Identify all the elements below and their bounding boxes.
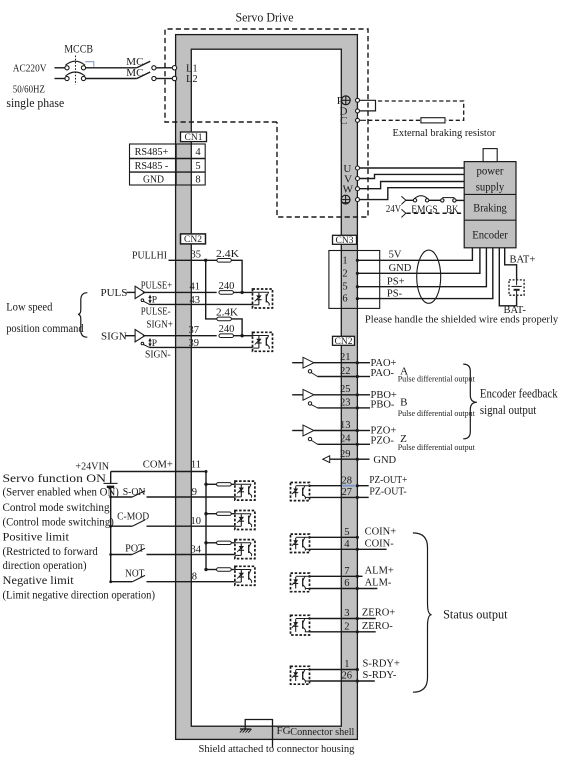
resistor input NOT bbox=[217, 568, 232, 571]
svg-text:26: 26 bbox=[342, 671, 353, 682]
svg-text:direction operation): direction operation) bbox=[3, 558, 87, 572]
svg-text:8: 8 bbox=[192, 572, 197, 583]
resistor R 240 (sign) bbox=[219, 334, 234, 338]
optocoupler output PZ-OUT bbox=[291, 483, 310, 501]
svg-text:9: 9 bbox=[192, 487, 197, 498]
battery BAT (encoder backup) bbox=[509, 280, 524, 295]
svg-text:Pulse differential output: Pulse differential output bbox=[398, 375, 476, 384]
svg-text:PULSE+: PULSE+ bbox=[141, 280, 172, 291]
pin 9 bbox=[192, 487, 197, 498]
label 50/60HZ bbox=[13, 84, 45, 96]
label Connector shell bbox=[290, 726, 354, 738]
svg-text:6: 6 bbox=[342, 294, 347, 305]
cable shield ellipse bbox=[417, 250, 441, 303]
label Negative limit bbox=[3, 573, 75, 587]
wire PAO+ pin 21 bbox=[314, 361, 370, 364]
24V supply lower prong bbox=[401, 209, 406, 217]
svg-text:Please handle the shielded wir: Please handle the shielded wire ends pro… bbox=[365, 313, 559, 325]
wire resistor to opto S-ON bbox=[231, 483, 235, 485]
wire PULLHI pin 35 bbox=[169, 259, 217, 262]
label Low speed bbox=[6, 300, 52, 314]
label S-ON bbox=[123, 486, 146, 498]
label PS+ bbox=[387, 276, 405, 287]
optocoupler output S-RDY bbox=[291, 666, 310, 684]
optocoupler input NOT bbox=[235, 566, 255, 585]
label AC220V bbox=[13, 63, 47, 75]
label COIN- bbox=[365, 539, 395, 550]
label COIN+ bbox=[365, 527, 397, 538]
label (Restricted to forward bbox=[3, 544, 98, 558]
pin 3 bbox=[344, 608, 349, 619]
optocoupler output ALM bbox=[291, 573, 310, 592]
label PULSE+ bbox=[141, 280, 172, 291]
pin 21 bbox=[340, 352, 351, 363]
svg-text:39: 39 bbox=[189, 338, 200, 349]
wire BAT+ encoder to battery bbox=[505, 248, 517, 280]
wire COM bus to resistor S-ON bbox=[204, 483, 216, 486]
resistor input C-MOD bbox=[217, 512, 232, 515]
svg-text:PULS: PULS bbox=[101, 287, 128, 299]
svg-text:GND: GND bbox=[373, 455, 396, 466]
svg-text:PULLHI: PULLHI bbox=[132, 249, 167, 261]
optocoupler output COIN bbox=[291, 534, 310, 552]
svg-text:34: 34 bbox=[191, 544, 202, 555]
wire PZ-OUT+ pin 28 bbox=[310, 484, 369, 487]
symbol P with arrows (pulse) bbox=[148, 295, 157, 306]
svg-text:COIN+: COIN+ bbox=[365, 527, 397, 538]
servo drive chassis frame (gray ring) bbox=[176, 35, 358, 740]
wire SIGN- pin 39 bbox=[149, 346, 252, 348]
label Control mode switching bbox=[3, 500, 110, 514]
svg-text:Control mode switching: Control mode switching bbox=[3, 500, 110, 514]
svg-text:ZERO+: ZERO+ bbox=[362, 608, 395, 619]
COM+ bus vertical bbox=[205, 470, 208, 570]
label PZO- bbox=[371, 436, 395, 447]
label single phase bbox=[6, 95, 64, 110]
switch C-MOD bbox=[109, 520, 235, 528]
optocoupler U1 (pulse input) bbox=[253, 289, 273, 308]
pin 11 bbox=[191, 459, 201, 470]
svg-text:MCCB: MCCB bbox=[64, 42, 93, 56]
label position command bbox=[6, 321, 83, 335]
pin 5 bbox=[344, 527, 349, 538]
chassis ground FG bbox=[240, 729, 252, 733]
battery +24V supply rail bbox=[104, 472, 118, 582]
svg-text:Encoder: Encoder bbox=[472, 227, 508, 241]
wire resistor to opto C-MOD bbox=[231, 513, 235, 515]
terminal C bbox=[340, 115, 360, 127]
pin 34 bbox=[191, 544, 202, 555]
label MC (lower contact) bbox=[126, 67, 143, 79]
resistor input POT bbox=[217, 541, 232, 544]
symbol P with arrows (sign) bbox=[148, 338, 157, 349]
label S-RDY+ bbox=[363, 659, 401, 670]
label PBO+ bbox=[371, 390, 397, 401]
svg-text:PBO-: PBO- bbox=[371, 399, 395, 410]
pin 26 bbox=[342, 671, 353, 682]
pin 6 bbox=[344, 578, 349, 589]
label SIGN- bbox=[145, 349, 171, 360]
jumper wire P-D bbox=[360, 100, 376, 111]
svg-text:24: 24 bbox=[340, 434, 351, 445]
svg-text:23: 23 bbox=[340, 397, 351, 408]
label MCCB bbox=[64, 42, 93, 56]
label SIGN bbox=[101, 331, 127, 343]
svg-text:Positive limit: Positive limit bbox=[3, 529, 70, 543]
svg-text:SIGN+: SIGN+ bbox=[146, 320, 173, 331]
svg-text:50/60HZ: 50/60HZ bbox=[13, 84, 45, 96]
svg-text:POT: POT bbox=[125, 542, 145, 554]
wire MC to L2 terminal bbox=[156, 78, 172, 80]
connector label CN1 bbox=[181, 132, 207, 143]
label SIGN+ bbox=[146, 320, 173, 331]
resistor R 2.4K (pulse) bbox=[217, 259, 232, 263]
svg-text:(Server enabled when ON): (Server enabled when ON) bbox=[3, 485, 119, 499]
svg-text:B: B bbox=[400, 397, 407, 409]
wire ZERO- pin 2 bbox=[310, 630, 376, 633]
svg-text:PZ-OUT+: PZ-OUT+ bbox=[369, 475, 407, 486]
svg-text:11: 11 bbox=[191, 459, 201, 470]
svg-text:6: 6 bbox=[344, 578, 349, 589]
terminal V bbox=[344, 173, 359, 185]
svg-text:24V: 24V bbox=[386, 203, 401, 215]
svg-text:Low speed: Low speed bbox=[6, 300, 52, 314]
svg-text:1: 1 bbox=[342, 255, 347, 266]
svg-text:AC220V: AC220V bbox=[13, 63, 47, 75]
svg-text:signal output: signal output bbox=[480, 403, 537, 417]
svg-text:ZERO-: ZERO- bbox=[362, 621, 393, 632]
wire encoder PS- bbox=[356, 248, 493, 300]
label PBO- bbox=[371, 399, 395, 410]
note shield attached bbox=[199, 743, 355, 755]
svg-text:240: 240 bbox=[219, 324, 235, 335]
connector CN3 pin box (pins 1 2 5 6) bbox=[329, 251, 380, 309]
wire PZO+ pin 13 bbox=[314, 429, 370, 432]
wire PULS to driver bbox=[127, 291, 136, 293]
brace status output bbox=[413, 533, 432, 692]
svg-text:BAT+: BAT+ bbox=[510, 254, 536, 265]
svg-text:5V: 5V bbox=[389, 250, 402, 261]
svg-text:1: 1 bbox=[344, 659, 349, 670]
svg-text:COIN-: COIN- bbox=[365, 539, 395, 550]
wire PAO- pin 22 bbox=[318, 375, 371, 378]
svg-text:RS485+: RS485+ bbox=[135, 146, 169, 158]
switch S-ON bbox=[109, 491, 235, 499]
label PZ-OUT- bbox=[369, 487, 407, 498]
svg-text:MC: MC bbox=[126, 67, 143, 79]
svg-text:FG: FG bbox=[277, 725, 291, 737]
svg-text:PULSE-: PULSE- bbox=[141, 307, 171, 318]
resistor R 240 (pulse) bbox=[219, 291, 234, 295]
svg-text:13: 13 bbox=[340, 420, 351, 431]
pin 29 bbox=[340, 449, 351, 460]
svg-text:240: 240 bbox=[219, 281, 235, 292]
label ZERO- bbox=[362, 621, 393, 632]
optocoupler input C-MOD bbox=[235, 511, 255, 530]
contactor MC contact 1 bbox=[137, 61, 156, 70]
svg-text:Pulse differential output: Pulse differential output bbox=[398, 443, 476, 452]
wire ZERO+ pin 3 bbox=[310, 617, 376, 620]
line driver SIGN bbox=[135, 330, 149, 348]
terminal W bbox=[343, 184, 360, 196]
svg-text:S-RDY-: S-RDY- bbox=[363, 670, 397, 681]
wire encoder 5V bbox=[356, 248, 473, 262]
svg-text:5: 5 bbox=[344, 527, 349, 538]
wire PZ-OUT- pin 27 bbox=[310, 496, 369, 499]
wire BK to motor braking bbox=[456, 199, 464, 201]
svg-text:PZO-: PZO- bbox=[371, 436, 395, 447]
wire COIN- pin 4 bbox=[310, 548, 387, 551]
label 2.4K bbox=[216, 249, 239, 260]
dashed return wire to motor braking bbox=[407, 212, 465, 214]
label 2.4K (sign) bbox=[216, 307, 238, 318]
label +24VIN bbox=[75, 460, 109, 472]
svg-text:3: 3 bbox=[344, 608, 349, 619]
svg-text:PAO-: PAO- bbox=[371, 368, 395, 379]
label NOT bbox=[125, 567, 145, 579]
svg-text:PZ-OUT-: PZ-OUT- bbox=[369, 487, 407, 498]
optocoupler output ZERO bbox=[291, 615, 310, 635]
svg-text:CN2: CN2 bbox=[184, 235, 202, 245]
resistor external braking bbox=[421, 118, 445, 123]
svg-text:22: 22 bbox=[340, 366, 351, 377]
svg-text:PS-: PS- bbox=[387, 288, 403, 299]
svg-text:SIGN-: SIGN- bbox=[145, 349, 171, 360]
24V supply upper prong bbox=[401, 196, 406, 204]
svg-text:GND: GND bbox=[143, 173, 164, 185]
note shielded wire bbox=[365, 313, 559, 325]
svg-text:21: 21 bbox=[340, 352, 351, 363]
label A phase bbox=[400, 365, 408, 377]
label (Server enabled when ON) bbox=[3, 485, 119, 499]
svg-text:28: 28 bbox=[342, 475, 353, 486]
svg-text:29: 29 bbox=[340, 449, 351, 460]
svg-text:ALM+: ALM+ bbox=[365, 566, 394, 577]
label (Control mode switching) bbox=[3, 514, 114, 528]
pin 8 bbox=[192, 572, 197, 583]
svg-text:CN3: CN3 bbox=[336, 236, 354, 246]
svg-text:single phase: single phase bbox=[6, 95, 64, 110]
label Positive limit bbox=[3, 529, 70, 543]
svg-text:Braking: Braking bbox=[473, 200, 506, 214]
svg-text:L2: L2 bbox=[186, 74, 198, 85]
label PZ-OUT+ bbox=[369, 475, 407, 486]
pin 35 bbox=[191, 249, 202, 260]
label C-MOD bbox=[117, 510, 149, 522]
svg-text:43: 43 bbox=[190, 295, 201, 306]
label Z phase bbox=[400, 433, 407, 445]
label BK bbox=[446, 204, 458, 216]
connector label CN3 bbox=[333, 235, 357, 246]
svg-text:CN1: CN1 bbox=[185, 133, 203, 143]
line driver A phase bbox=[292, 357, 317, 376]
pin 27 bbox=[342, 487, 353, 498]
label 24V bbox=[386, 203, 401, 215]
svg-text:2.4K: 2.4K bbox=[216, 249, 239, 260]
label ZERO+ bbox=[362, 608, 395, 619]
svg-text:(Limit negative direction oper: (Limit negative direction operation) bbox=[3, 587, 156, 601]
svg-text:25: 25 bbox=[340, 384, 351, 395]
label Pulse differential output B bbox=[398, 409, 476, 418]
label COM+ bbox=[143, 459, 173, 471]
label MC (upper contact) bbox=[126, 56, 143, 68]
svg-text:7: 7 bbox=[344, 566, 349, 577]
pin 39 bbox=[189, 338, 200, 349]
svg-text:2: 2 bbox=[342, 268, 347, 279]
wire 2.4K to pulse node bbox=[231, 260, 243, 294]
switch BK bbox=[441, 198, 457, 202]
svg-text:4: 4 bbox=[195, 147, 201, 158]
svg-text:Pulse differential output: Pulse differential output bbox=[398, 409, 476, 418]
wire earth to motor bbox=[360, 188, 465, 200]
wire ALM+ pin 7 bbox=[310, 575, 363, 578]
brace low speed position command bbox=[78, 293, 87, 338]
pin 10 bbox=[191, 516, 202, 527]
svg-text:Servo Drive: Servo Drive bbox=[236, 10, 294, 25]
svg-text:27: 27 bbox=[342, 487, 353, 498]
optocoupler input POT bbox=[235, 540, 255, 559]
label direction operation) bbox=[3, 558, 87, 572]
wire S-RDY+ pin 1 bbox=[310, 668, 359, 671]
pin 1 bbox=[344, 659, 349, 670]
wire 24V to EMGS bbox=[406, 199, 414, 201]
terminal P with circled-plus bbox=[337, 95, 360, 107]
connector label CN2 (feedback) bbox=[333, 336, 355, 347]
wire resistor to opto NOT bbox=[231, 569, 235, 571]
terminal D bbox=[340, 106, 360, 118]
brace encoder feedback bbox=[463, 364, 477, 439]
label PZO+ bbox=[371, 426, 397, 437]
svg-text:4: 4 bbox=[344, 539, 350, 550]
switch NOT bbox=[109, 575, 235, 583]
wire PULLHI branch down bbox=[206, 260, 217, 319]
line driver B phase bbox=[292, 389, 317, 408]
GND arrow (pin 29) bbox=[323, 456, 370, 463]
switch POT bbox=[109, 548, 235, 556]
pin 24 bbox=[340, 434, 351, 445]
wire encoder GND bbox=[356, 248, 480, 275]
svg-text:Connector shell: Connector shell bbox=[290, 726, 354, 738]
wire PBO+ pin 25 bbox=[314, 393, 370, 396]
wire PULSE+ pin 41 bbox=[143, 291, 217, 293]
label EMGS bbox=[411, 204, 438, 216]
svg-text:supply: supply bbox=[476, 180, 505, 194]
label Pulse differential output Z bbox=[398, 443, 476, 452]
svg-text:Servo function ON: Servo function ON bbox=[3, 471, 107, 485]
circuit breaker MCCB pole 1 bbox=[55, 61, 86, 70]
svg-text:GND: GND bbox=[389, 263, 412, 274]
wire 2.4K sign to node bbox=[231, 319, 243, 338]
wire SIGN to driver bbox=[126, 335, 136, 337]
pin 43 bbox=[190, 295, 201, 306]
wire PULSE- pin 43 bbox=[149, 303, 252, 305]
label ALM+ bbox=[365, 566, 394, 577]
svg-text:8: 8 bbox=[195, 175, 200, 186]
label Encoder feedback bbox=[480, 386, 558, 400]
label PULS bbox=[101, 287, 128, 299]
label B phase bbox=[400, 397, 407, 409]
circuit breaker MCCB pole 2 bbox=[55, 72, 86, 81]
wire V to motor bbox=[360, 174, 465, 178]
svg-text:CN2: CN2 bbox=[335, 337, 353, 347]
servo drive dashed boundary bbox=[165, 29, 368, 217]
svg-text:S-RDY+: S-RDY+ bbox=[363, 659, 401, 670]
wire PBO- pin 23 bbox=[318, 406, 371, 409]
pin 7 bbox=[344, 566, 349, 577]
label PAO- bbox=[371, 368, 395, 379]
wire U to motor bbox=[360, 167, 465, 169]
svg-text:10: 10 bbox=[191, 516, 202, 527]
svg-text:PS+: PS+ bbox=[387, 276, 405, 287]
svg-text:41: 41 bbox=[190, 281, 201, 292]
switch EMGS bbox=[413, 196, 429, 202]
label S-RDY- bbox=[363, 670, 397, 681]
label 240 (sign) bbox=[219, 324, 235, 335]
svg-text:L1: L1 bbox=[186, 63, 198, 74]
resistor input S-ON bbox=[217, 483, 232, 486]
wire COM bus to resistor C-MOD bbox=[204, 512, 216, 515]
wire W to motor bbox=[360, 182, 465, 189]
svg-text:2.4K: 2.4K bbox=[216, 307, 238, 318]
label PS- bbox=[387, 288, 403, 299]
svg-text:5: 5 bbox=[342, 282, 347, 293]
terminal L1 bbox=[172, 63, 197, 74]
svg-text:37: 37 bbox=[189, 325, 200, 336]
svg-text:C: C bbox=[340, 115, 347, 127]
line driver PULS bbox=[135, 286, 149, 304]
wire EMGS to BK bbox=[429, 199, 441, 201]
MCCB mechanical link bbox=[75, 56, 77, 85]
svg-text:Negative limit: Negative limit bbox=[3, 573, 75, 587]
servo motor block (power supply / Braking / Encoder) bbox=[464, 149, 516, 248]
label ALM- bbox=[365, 578, 392, 589]
wire S-RDY- pin 26 bbox=[310, 679, 375, 682]
svg-text:RS485 -: RS485 - bbox=[135, 160, 169, 172]
connector label CN2 (pulse input) bbox=[181, 234, 206, 245]
label BAT- bbox=[504, 305, 527, 316]
pin 41 bbox=[190, 281, 201, 292]
terminal L2 bbox=[172, 74, 197, 85]
terminal U bbox=[343, 163, 359, 175]
pin 13 bbox=[340, 420, 351, 431]
svg-text:Shield attached to connector h: Shield attached to connector housing bbox=[199, 743, 355, 755]
label FG bbox=[277, 725, 291, 737]
resistor R 2.4K (sign) bbox=[217, 317, 232, 321]
wire L1 MCCB to MC bbox=[86, 67, 137, 69]
label 240 (pulse) bbox=[219, 281, 235, 292]
wire 240 to opto bbox=[234, 291, 253, 293]
wire BAT- encoder to battery bbox=[499, 248, 516, 306]
wire encoder PS+ bbox=[356, 248, 487, 289]
svg-text:COM+: COM+ bbox=[143, 459, 173, 471]
wire COM bus to resistor POT bbox=[204, 541, 216, 544]
label (Limit negative direction operation) bbox=[3, 587, 156, 601]
label Status output bbox=[443, 607, 508, 622]
label Servo function ON bbox=[3, 471, 107, 485]
label BAT+ bbox=[510, 254, 536, 265]
wire COM bus to resistor NOT bbox=[204, 568, 216, 571]
label signal output bbox=[480, 403, 537, 417]
pin 37 bbox=[189, 325, 200, 336]
label External braking resistor bbox=[393, 127, 496, 139]
svg-text:W: W bbox=[343, 184, 354, 196]
wire MC to L1 terminal bbox=[156, 67, 172, 69]
svg-text:Status output: Status output bbox=[443, 607, 508, 622]
wire COIN+ pin 5 bbox=[310, 536, 359, 539]
pin 22 bbox=[340, 366, 351, 377]
svg-text:Encoder feedback: Encoder feedback bbox=[480, 386, 558, 400]
label Servo Drive bbox=[236, 10, 294, 25]
